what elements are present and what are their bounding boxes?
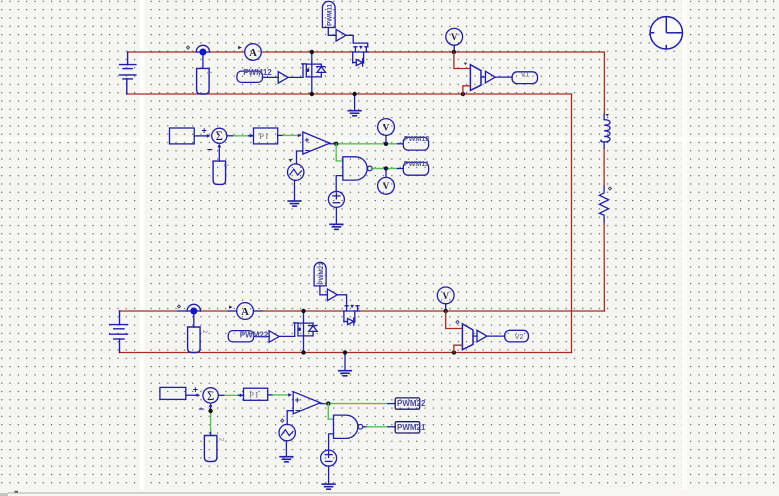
node VP2 xyxy=(444,309,448,313)
wire right branch bottom xyxy=(603,223,605,311)
svg-text:Σ: Σ xyxy=(207,389,214,403)
svg-text:PWM11: PWM11 xyxy=(327,3,334,26)
sine mark xyxy=(289,159,293,162)
wire summer 2 down xyxy=(210,407,212,413)
ammeter direction arrow 2 xyxy=(229,306,233,309)
wire blue stub ammeter A2 right xyxy=(254,310,263,312)
svg-text:PWM12: PWM12 xyxy=(404,134,430,143)
summer bottom input arrow xyxy=(217,144,221,148)
buffer U4 xyxy=(269,331,279,343)
buffer U5 xyxy=(327,289,337,301)
white stripe horizontal xyxy=(0,137,779,141)
current flag F2 xyxy=(187,304,200,311)
wire op-amp minus input to sine xyxy=(297,151,303,164)
wire REF2 to summer xyxy=(186,394,197,396)
NAND gate N2 xyxy=(334,415,363,438)
wire right return drop xyxy=(571,94,573,353)
ammeter A1 xyxy=(245,44,262,61)
svg-text:PWM22: PWM22 xyxy=(240,330,269,339)
comparator CMP2 xyxy=(462,324,473,350)
op-amp OA2 xyxy=(293,392,320,414)
node VP1 xyxy=(452,50,456,54)
wire top rail 1 segment ammeter to mosfet Q2 xyxy=(261,51,352,53)
buffer U6 xyxy=(477,330,487,342)
wire CMP2 to buffer xyxy=(473,335,477,337)
PWM11 output label block xyxy=(403,162,428,175)
mosfet Q3 xyxy=(294,311,318,353)
ground G5 xyxy=(328,466,330,484)
summer S1 xyxy=(212,128,227,143)
V probe VP1 xyxy=(446,28,463,45)
node comparator bottom input xyxy=(461,92,465,96)
sine source SRC1 xyxy=(288,164,304,180)
wire top rail 2 segments xyxy=(120,310,179,312)
V probe VP3 xyxy=(378,119,395,136)
white stripe vertical left xyxy=(140,0,145,491)
svg-text:+: + xyxy=(295,395,300,405)
svg-text:−: − xyxy=(295,405,300,415)
ammeter direction arrow xyxy=(238,46,242,49)
wire buffer to V1 xyxy=(495,76,512,78)
wire PWM21 to buffer xyxy=(320,286,328,295)
PI block PI1 xyxy=(254,128,278,144)
reference block REF1 xyxy=(170,128,195,144)
mosfet Q2 (horizontal) xyxy=(353,46,368,66)
wire bottom rail 1 xyxy=(127,93,572,95)
flag diamond mark 2 xyxy=(177,305,180,308)
wire summer to sensor capsule xyxy=(218,147,220,161)
clock icon xyxy=(650,17,682,49)
svg-text:PWM12: PWM12 xyxy=(243,68,272,77)
svg-text:−: − xyxy=(305,146,310,156)
NAND gate N1 xyxy=(343,157,372,180)
wire PI2 to op-amp (green) xyxy=(268,394,273,396)
buffer U3 xyxy=(485,71,495,83)
svg-text:PWM21: PWM21 xyxy=(397,423,426,432)
wire NAND bottom input to dc source xyxy=(336,176,343,192)
svg-text:Σ: Σ xyxy=(216,129,223,143)
wire VP2 lead xyxy=(445,304,447,311)
node VP3 xyxy=(384,142,388,146)
svg-text:+: + xyxy=(304,135,309,145)
wire REF1 to summer xyxy=(194,135,207,137)
mosfet Q1 xyxy=(302,52,326,94)
wire PWM22 to buffer xyxy=(254,336,270,338)
svg-text:PWM22: PWM22 xyxy=(397,399,426,408)
svg-text:PI: PI xyxy=(249,389,260,399)
svg-text:+: + xyxy=(193,385,198,395)
buffer U1 xyxy=(278,72,288,84)
ground G3 xyxy=(294,180,296,200)
wire top rail 2 mid xyxy=(262,310,344,312)
dc source DC1 xyxy=(328,191,344,207)
wire op-amp 2 output (green) xyxy=(320,403,326,405)
svg-text:+: + xyxy=(202,125,207,135)
wire branch to NAND 2 (green) xyxy=(328,404,333,420)
node Q3 source xyxy=(301,350,305,354)
svg-text:V1: V1 xyxy=(521,72,530,79)
bottom window edge xyxy=(0,489,779,496)
wire blue stub ammeter A2 left xyxy=(229,310,237,312)
PWM12 output label block xyxy=(403,137,428,150)
PWM12 gating block xyxy=(237,71,263,82)
wire gate Q4 xyxy=(337,295,346,306)
summer 2 bottom input arrow xyxy=(209,403,213,407)
node op-amp 2 output xyxy=(326,401,330,405)
ground G4 xyxy=(335,207,337,224)
svg-text:PWM21: PWM21 xyxy=(318,262,325,285)
wire comparator bottom input xyxy=(463,86,471,94)
wire NAND 2 bottom input to dc source xyxy=(329,434,334,450)
svg-text:A: A xyxy=(241,307,249,318)
resistor mark xyxy=(608,187,611,190)
wire comparator 2 bottom input xyxy=(454,345,463,352)
wire top rail 2 right xyxy=(359,310,604,312)
svg-text:−: − xyxy=(198,404,204,415)
wire top rail 1 left segment xyxy=(128,51,197,53)
PWM21 output label block xyxy=(395,422,420,433)
wire summer to PI (green) xyxy=(227,135,234,137)
PWM11 gating block (vertical) xyxy=(322,1,335,27)
node VP4 xyxy=(384,166,388,170)
wire CMP1 to buffer xyxy=(481,76,485,78)
wire right branch top xyxy=(603,52,605,114)
wire mid right branch xyxy=(603,148,605,186)
V probe VP2 xyxy=(437,287,454,304)
node Q1 source xyxy=(310,92,314,96)
battery B1 xyxy=(120,52,136,94)
PWM22 gating block xyxy=(228,331,253,342)
wire top rail 1 mid segment xyxy=(210,51,245,53)
svg-text:PWM11: PWM11 xyxy=(404,159,429,168)
buffer U2 xyxy=(336,30,346,42)
svg-text:V2: V2 xyxy=(515,334,524,341)
PWM21 gating block (vertical) xyxy=(314,262,326,286)
wire PI to op-amp (green) xyxy=(278,134,283,136)
svg-text:PI: PI xyxy=(259,131,270,141)
capacitor C2 (dc bus) xyxy=(193,314,195,327)
resistor R1 xyxy=(599,186,608,223)
white stripe vertical right xyxy=(682,0,687,491)
wire branch to NAND (green) xyxy=(336,144,343,161)
sensor capsule SEN1 xyxy=(213,161,226,184)
PI block PI2 xyxy=(244,388,268,400)
comparator CMP1 xyxy=(470,65,481,91)
inductor mark xyxy=(606,114,609,117)
PWM22 output label block xyxy=(395,398,420,409)
wire PWM12 to buffer xyxy=(263,76,279,78)
sensor capsule SEN2 xyxy=(204,436,217,462)
inductor L1 xyxy=(601,114,610,148)
wire comparator 2 top input xyxy=(446,311,463,329)
node comparator 2 bottom input xyxy=(452,350,456,354)
comparator 2 mark xyxy=(456,320,459,323)
wire summer 2 to PI (green) xyxy=(218,394,225,396)
wire NAND 2 output (green) xyxy=(364,426,367,428)
sine source SRC2 xyxy=(279,424,295,440)
wire bottom rail 2 xyxy=(120,352,572,354)
capacitor C1 (dc bus) xyxy=(202,55,204,68)
ground G1 xyxy=(354,94,356,110)
ammeter A2 xyxy=(237,303,254,320)
dc source DC2 xyxy=(321,450,337,466)
mosfet Q4 (horizontal) xyxy=(344,305,359,325)
wire op-amp 2 minus input to sine xyxy=(287,411,293,425)
comparator mark xyxy=(464,63,467,66)
wire top rail 1 segment to right branch xyxy=(368,51,604,53)
svg-text:A: A xyxy=(249,48,257,59)
node op-amp output xyxy=(334,142,338,146)
wire PWM11 to buffer xyxy=(328,28,336,36)
wire gate Q3 xyxy=(279,335,295,337)
ground G2 xyxy=(344,353,346,371)
wire NAND output (green) xyxy=(373,168,397,170)
V probe VP4 xyxy=(378,177,395,194)
ground G6 xyxy=(285,441,287,456)
wire gate Q1 xyxy=(288,76,303,78)
wire gate Q2 xyxy=(346,35,368,47)
wire VP1 lead xyxy=(453,45,455,52)
sine mark 2 xyxy=(281,419,284,422)
V2 probe block xyxy=(505,330,529,342)
node below summer 2 xyxy=(208,409,212,413)
wire op-amp output (green) xyxy=(330,143,336,145)
summer S2 xyxy=(203,388,218,403)
flag diamond mark xyxy=(186,46,189,49)
node Q3 drain xyxy=(301,309,305,313)
reference block REF2 xyxy=(160,387,186,399)
wire comparator top input xyxy=(454,52,471,69)
wire buffer to V2 xyxy=(487,335,505,337)
svg-text:−: − xyxy=(207,145,213,156)
op-amp OA1 xyxy=(303,132,330,154)
V1 probe block xyxy=(512,72,537,84)
current flag F1 xyxy=(196,45,209,52)
battery B2 xyxy=(110,311,128,353)
node Q1 drain xyxy=(310,50,314,54)
